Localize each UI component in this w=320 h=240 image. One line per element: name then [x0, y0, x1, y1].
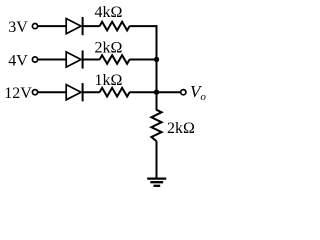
diode D2	[66, 50, 82, 68]
svg-text:2kΩ: 2kΩ	[94, 40, 122, 57]
wire R4 to ground	[156, 141, 158, 178]
diode D3	[66, 83, 82, 101]
wire 4V terminal to D2 anode	[38, 59, 66, 61]
wire R1 to bus top corner	[129, 26, 156, 42]
wire 3V terminal to D1 anode	[38, 25, 66, 27]
label Vo	[190, 82, 206, 103]
resistor R2	[100, 55, 130, 64]
svg-text:1kΩ: 1kΩ	[94, 72, 122, 89]
wire vertical bus	[156, 25, 158, 110]
terminal 4V	[32, 57, 37, 62]
svg-text:12V: 12V	[4, 85, 32, 102]
node A junction dot	[154, 57, 159, 62]
resistor R1	[100, 22, 130, 31]
wire R2 to node A	[129, 59, 156, 61]
wire R3 to node B	[129, 91, 156, 93]
wire D2 cathode to R2	[83, 59, 100, 61]
svg-text:2kΩ: 2kΩ	[167, 120, 195, 137]
resistor R3	[100, 88, 130, 97]
terminal 3V	[32, 24, 37, 29]
diode D1	[66, 17, 82, 35]
wire D1 cathode to R1	[83, 25, 100, 27]
wire D3 cathode to R3	[83, 91, 100, 93]
svg-text:3V: 3V	[8, 19, 28, 36]
svg-text:4kΩ: 4kΩ	[94, 4, 122, 21]
resistor R4	[151, 110, 161, 141]
terminal 12V	[32, 90, 37, 95]
wire node B to Vo terminal	[157, 91, 181, 93]
svg-text:4V: 4V	[8, 53, 28, 70]
node B junction dot	[154, 90, 159, 95]
terminal Vo	[181, 90, 186, 95]
svg-text:o: o	[200, 91, 206, 103]
wire 12V terminal to D3 anode	[38, 91, 66, 93]
ground	[147, 179, 166, 186]
